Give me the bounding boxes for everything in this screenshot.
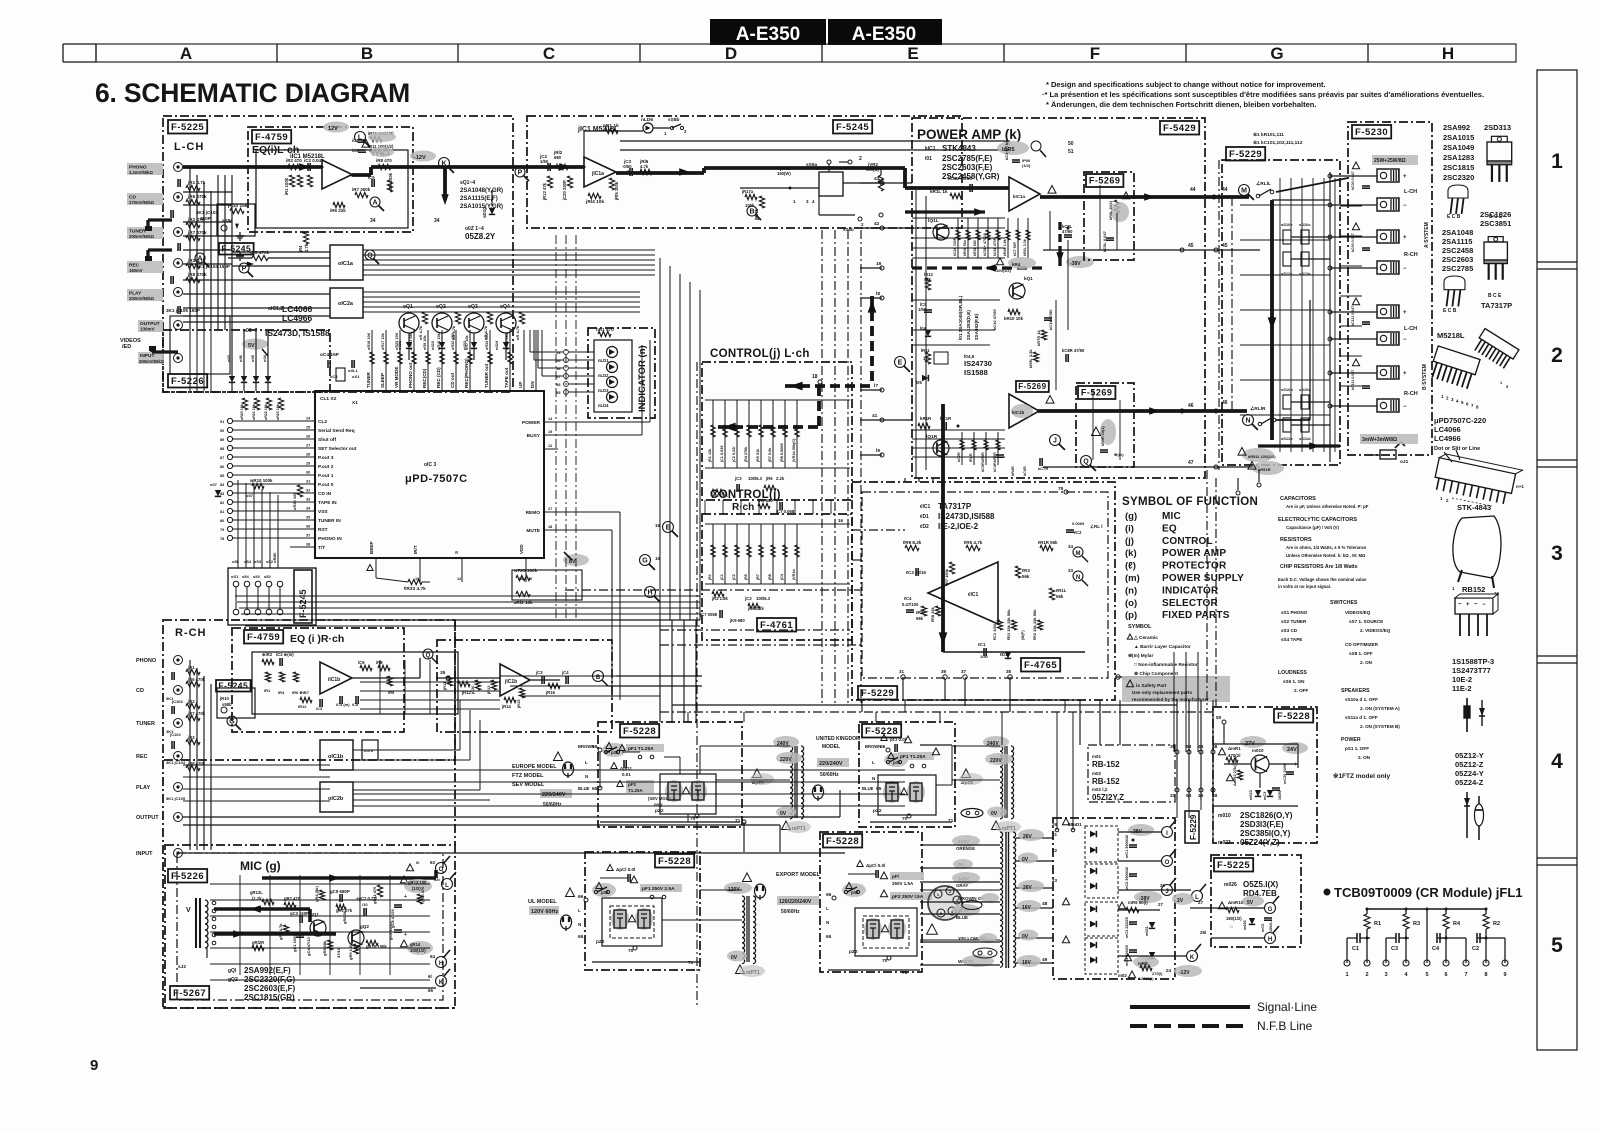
svg-text:pSl: pSl	[851, 890, 858, 895]
export fuse1	[880, 872, 924, 886]
svg-text:D: D	[725, 44, 737, 63]
svg-text:TUNER: TUNER	[366, 371, 371, 388]
speaker terminal 1	[1377, 169, 1410, 182]
rect diode box3	[1062, 898, 1118, 936]
svg-text:64: 64	[430, 954, 436, 959]
legend signal line	[1130, 1000, 1317, 1014]
box INDICATOR	[588, 328, 655, 418]
svg-text:kC111 0.047: kC111 0.047	[1351, 306, 1355, 326]
svg-text:BROWN: BROWN	[865, 744, 881, 749]
label F-5228 right	[1274, 709, 1313, 723]
svg-text:ℓC2: ℓC2	[1074, 530, 1082, 535]
svg-text:kC00 0.047: kC00 0.047	[1351, 171, 1355, 190]
svg-text:66: 66	[592, 744, 598, 750]
svg-text:kIC1b: kIC1b	[1012, 410, 1025, 415]
svg-text:50k(B): 50k(B)	[866, 167, 879, 172]
svg-text:TUNER out: TUNER out	[484, 363, 489, 388]
connector F-5245 circles	[231, 574, 283, 615]
svg-text:(n): (n)	[1125, 585, 1137, 596]
svg-text:F-4759: F-4759	[255, 132, 288, 143]
svg-text:9: 9	[1503, 972, 1506, 978]
svg-text:kC10 47/50: kC10 47/50	[992, 309, 997, 330]
svg-text:37: 37	[306, 534, 310, 538]
svg-text:mC6: mC6	[1261, 924, 1265, 932]
svg-text:44: 44	[1190, 187, 1196, 193]
svg-text:⊕(m): ⊕(m)	[1114, 452, 1124, 457]
svg-text:o04: o04	[262, 354, 267, 362]
pkg text TA7317P	[1481, 301, 1512, 310]
svg-text:INPUT: INPUT	[136, 851, 153, 857]
svg-text:ilC1b: ilC1b	[328, 677, 340, 683]
relay M	[1239, 181, 1274, 200]
svg-text:0V: 0V	[1022, 934, 1029, 940]
text RB-152	[1092, 754, 1124, 802]
svg-text:jR7 470k: jR7 470k	[187, 230, 207, 235]
svg-text:jR17a: jR17a	[741, 189, 754, 194]
svg-text:33: 33	[1068, 568, 1074, 573]
svg-text:A: A	[197, 256, 202, 263]
svg-text:VIDEOS/EQ: VIDEOS/EQ	[1345, 610, 1371, 615]
grey label 25W	[1372, 155, 1418, 165]
svg-text:2. ON: 2. ON	[1360, 660, 1373, 665]
input label TUNER	[127, 227, 163, 239]
svg-text:C: C	[543, 44, 555, 63]
res kR10	[992, 309, 1053, 330]
TCB CR module schematic	[1344, 908, 1508, 979]
svg-text:kR511 220(1/2): kR511 220(1/2)	[1248, 454, 1276, 459]
text LC4066	[268, 304, 313, 323]
vr pin labels	[793, 166, 884, 204]
svg-text:ΔpCl 0.0l: ΔpCl 0.0l	[616, 867, 635, 872]
svg-text:MIC (g): MIC (g)	[240, 859, 281, 873]
svg-text:MUTE: MUTE	[526, 528, 540, 534]
svg-text:gR14: gR14	[410, 942, 421, 947]
svg-text:L-CH: L-CH	[174, 141, 204, 153]
svg-text:sS10e: sS10e	[1281, 222, 1293, 227]
svg-text:R-CH: R-CH	[1404, 252, 1418, 258]
legend nfb line	[1130, 1019, 1313, 1033]
svg-text:H: H	[1268, 937, 1272, 943]
jack R PLAY	[136, 783, 183, 792]
svg-text:2. VIDEOS/EQ: 2. VIDEOS/EQ	[1360, 628, 1391, 633]
svg-text:(k): (k)	[1125, 548, 1137, 559]
spk bottom wires	[1236, 470, 1261, 495]
svg-text:+: +	[1403, 310, 1407, 316]
svg-text:680: 680	[554, 155, 562, 160]
svg-text:gC4 47/10: gC4 47/10	[306, 937, 311, 956]
rch eq wires	[360, 660, 500, 714]
mic transformer	[186, 898, 216, 958]
box rectifier	[1053, 818, 1175, 979]
svg-text:C1: C1	[1352, 946, 1359, 952]
signal to phones	[1258, 442, 1405, 450]
svg-text:IS1588: IS1588	[964, 368, 988, 377]
svg-text:−: −	[1403, 404, 1407, 410]
svg-text:o R51 680: o R51 680	[409, 332, 413, 350]
grey pill 240V e	[773, 736, 799, 748]
pkg text 2SC1826	[1480, 210, 1511, 228]
svg-text:26V: 26V	[1023, 885, 1033, 891]
svg-text:36: 36	[306, 525, 310, 529]
svg-text:1: 1	[1345, 972, 1348, 978]
svg-text:ΔmR1: ΔmR1	[1228, 746, 1241, 751]
connector labels	[232, 553, 277, 564]
tuner input stub	[145, 220, 172, 231]
svg-text:o06: o06	[238, 354, 243, 362]
svg-text:F-5269: F-5269	[1089, 176, 1121, 186]
svg-text:Are in ohms, 1/4 Watts, ± 5 %: Are in ohms, 1/4 Watts, ± 5 % Tolerance	[1286, 545, 1367, 550]
jack CD L	[174, 193, 183, 202]
mid crossing bus2	[320, 619, 700, 621]
svg-text:kR10 10k: kR10 10k	[1004, 316, 1024, 321]
transistor gQ1	[310, 912, 326, 936]
svg-text:sS10a d 1. OFF: sS10a d 1. OFF	[1345, 697, 1378, 702]
pin numbers mid	[655, 518, 844, 561]
label F-5228 ul	[655, 854, 694, 868]
warn pZ8 e	[750, 769, 774, 786]
svg-text:POWER SUPPLY: POWER SUPPLY	[1162, 573, 1244, 584]
svg-text:(g): (g)	[1125, 511, 1137, 522]
videos input stub	[149, 346, 178, 352]
svg-text:jC1 0.039: jC1 0.039	[720, 446, 724, 463]
svg-text:jVR1b: jVR1b	[792, 569, 796, 581]
svg-text:oXL1: oXL1	[348, 368, 359, 373]
rectifier extra verticals	[1057, 700, 1213, 843]
svg-text:(p): (p)	[1125, 610, 1137, 621]
svg-text:M: M	[1076, 551, 1081, 557]
net circle Q pa	[1081, 456, 1096, 471]
svg-text:24: 24	[1166, 968, 1172, 973]
left border lower	[163, 760, 455, 1008]
label INDICATOR	[637, 345, 648, 412]
mic warn1	[406, 860, 419, 871]
power amp R parts	[957, 432, 1000, 465]
svg-text:R3: R3	[1413, 921, 1420, 927]
svg-text:R·ch: R·ch	[732, 502, 754, 513]
svg-text:l9: l9	[876, 448, 880, 454]
svg-text:E: E	[907, 44, 918, 63]
cap kC8L	[1062, 224, 1073, 237]
svg-text:L: L	[585, 760, 588, 765]
svg-text:CONTROL(j): CONTROL(j)	[710, 489, 781, 501]
R selector caps	[166, 672, 186, 801]
svg-text:sS3 CD: sS3 CD	[1281, 628, 1298, 633]
indicator pins	[556, 350, 594, 395]
svg-text:∠RLlL: ∠RLlL	[1256, 181, 1271, 187]
text EXPORT MODEL	[743, 872, 821, 900]
svg-text:TUNER IN: TUNER IN	[318, 518, 341, 524]
svg-text:BROWN 0V: BROWN 0V	[958, 896, 985, 902]
svg-text:F: F	[1090, 44, 1100, 63]
res kC1L	[930, 176, 972, 199]
svg-text:49: 49	[1042, 957, 1048, 963]
svg-text:iR12: iR12	[298, 704, 307, 709]
svg-text:※1 kC101,102,111,112: ※1 kC101,102,111,112	[1253, 139, 1303, 146]
svg-text:gQl: gQl	[228, 968, 237, 974]
export fuse2	[880, 890, 932, 900]
svg-text:SELECTOR: SELECTOR	[1162, 598, 1218, 609]
svg-text:05Z12-Y: 05Z12-Y	[1455, 751, 1484, 760]
svg-text:0.0069: 0.0069	[1072, 521, 1085, 526]
speaker terminal 3	[1377, 230, 1410, 243]
svg-text:2SA992: 2SA992	[1443, 123, 1470, 132]
box buffer F-5245	[527, 116, 962, 228]
net circle J pa	[1050, 435, 1065, 450]
svg-text:P.out 2: P.out 2	[318, 464, 334, 470]
ps right verticals	[1080, 700, 1120, 745]
svg-text:200mV/50kΩ: 200mV/50kΩ	[129, 296, 155, 301]
svg-text:2SA992(E,F): 2SA992(E,F)	[244, 966, 291, 975]
svg-text:3K1 jC103: 3K1 jC103	[196, 210, 218, 215]
svg-text:RB152: RB152	[1462, 585, 1485, 594]
text TA7317P	[919, 502, 995, 531]
res kR1R	[918, 416, 960, 430]
relay wires	[1232, 178, 1348, 420]
jack R PHONO	[136, 656, 183, 665]
label F-5226	[168, 374, 207, 388]
selector resistors	[171, 179, 207, 314]
mic out L	[434, 872, 456, 890]
svg-text:VSS: VSS	[318, 509, 328, 515]
svg-text:o024: o024	[494, 340, 499, 350]
svg-text:sS2 TUNER: sS2 TUNER	[1281, 619, 1307, 624]
svg-text:pF1 T1.25A: pF1 T1.25A	[900, 754, 926, 760]
svg-text:F-5429: F-5429	[1163, 123, 1196, 134]
svg-text:s58b: s58b	[222, 702, 232, 707]
svg-text:o03: o03	[226, 354, 231, 362]
res wR10 100k	[210, 398, 284, 498]
signal out R	[1038, 407, 1247, 414]
svg-text:71: 71	[902, 970, 908, 976]
svg-text:o5l: o5l	[232, 559, 238, 564]
grey pill 24V	[1282, 742, 1308, 754]
svg-text:ℓC4: ℓC4	[904, 596, 912, 601]
diode row o021-o024	[397, 333, 509, 360]
svg-text:56k: 56k	[916, 616, 924, 621]
text STK4843 list	[925, 144, 1000, 181]
VR1 pot	[777, 160, 843, 196]
svg-text:CL1 X2: CL1 X2	[320, 396, 337, 402]
f5269 interior wires	[1093, 185, 1120, 460]
svg-text:jR10 15k: jR10 15k	[227, 203, 248, 209]
svg-text:Δ2700(l): Δ2700(l)	[1138, 976, 1154, 981]
signal to M5218L	[445, 165, 584, 169]
ic oIC1a	[330, 245, 363, 280]
svg-text:EQ: EQ	[1162, 523, 1177, 534]
transistor gQ2	[348, 924, 369, 946]
svg-text:220V: 220V	[780, 757, 792, 763]
svg-text:SPEAKERS: SPEAKERS	[1341, 688, 1370, 694]
svg-text:2SC385l(O,Y): 2SC385l(O,Y)	[1240, 829, 1291, 838]
rect out I	[1162, 820, 1177, 838]
selector out wires	[363, 250, 655, 275]
svg-text:oQ4: oQ4	[500, 304, 510, 310]
svg-text:sQ1~4: sQ1~4	[460, 180, 475, 186]
transistor row oQ1-oQ4	[399, 304, 525, 340]
svg-text:kC3 47/ ko: kC3 47/ ko	[1004, 140, 1009, 160]
svg-text:16V: 16V	[1022, 960, 1032, 966]
svg-text:l7: l7	[874, 383, 878, 389]
svg-text:REC (CD): REC (CD)	[436, 367, 441, 388]
pkg TO-220 2SC1826	[1484, 237, 1507, 299]
svg-text:uR21 10k: uR21 10k	[252, 404, 256, 420]
svg-text:200mV/50kΩ: 200mV/50kΩ	[129, 234, 155, 239]
rect zeners	[1145, 922, 1155, 968]
uk switch pS1	[884, 753, 908, 768]
svg-text:Signal·Line: Signal·Line	[1257, 1000, 1317, 1014]
svg-text:2V: 2V	[1177, 898, 1184, 904]
net circle E pa	[895, 357, 910, 372]
op-amp kIC1b	[1009, 394, 1054, 428]
svg-text:H: H	[1442, 44, 1454, 63]
svg-text:l05: l05	[916, 380, 922, 385]
svg-text:m021: m021	[1145, 926, 1149, 936]
svg-text:5: 5	[1425, 972, 1428, 978]
svg-text:46: 46	[1188, 403, 1194, 409]
svg-text:mD1: mD1	[1072, 822, 1082, 827]
svg-text:F-5267: F-5267	[173, 988, 206, 999]
label CONTROL L-ch	[710, 348, 810, 360]
ps cap mC20	[1283, 762, 1297, 784]
svg-text:IS2473D, IS1588: IS2473D, IS1588	[265, 328, 330, 338]
svg-text:N: N	[1245, 418, 1250, 425]
svg-text:mC3 220/25: mC3 220/25	[1125, 917, 1129, 938]
svg-text:F-5226: F-5226	[171, 871, 204, 882]
svg-text:29: 29	[306, 462, 310, 466]
svg-text:jC4: jC4	[780, 573, 784, 581]
svg-text:A-E350: A-E350	[736, 24, 800, 45]
cap C105 150P	[166, 308, 200, 313]
svg-text:oX1: oX1	[352, 374, 360, 379]
svg-text:SYMBOL: SYMBOL	[1128, 624, 1152, 630]
svg-text:2SC2603: 2SC2603	[1442, 255, 1473, 264]
res oR30 10k	[292, 485, 303, 510]
label F-5225	[168, 120, 207, 134]
svg-text:ℓIC1: ℓIC1	[919, 504, 930, 510]
R buf parts	[442, 676, 525, 709]
pin 34 labels	[370, 218, 440, 224]
europe 70 71	[600, 814, 741, 824]
svg-text:2. ON: 2. ON	[1358, 755, 1371, 760]
page number	[90, 1057, 98, 1074]
grey 220/240V europe	[540, 789, 572, 808]
svg-text:BUSY: BUSY	[527, 433, 541, 439]
svg-text:05Z8.2Y: 05Z8.2Y	[465, 232, 496, 241]
svg-text:oR18 10K: oR18 10K	[367, 332, 371, 350]
VR wires	[740, 167, 881, 232]
pin 75	[1058, 486, 1068, 494]
svg-text:05Z12-Z: 05Z12-Z	[1455, 760, 1484, 769]
main title	[95, 78, 410, 108]
svg-text:05Z24(Y,Z): 05Z24(Y,Z)	[1240, 838, 1280, 847]
power amp L parts	[953, 218, 1030, 258]
svg-text:33k: 33k	[924, 277, 932, 282]
svg-text:sS10b: sS10b	[1281, 387, 1293, 392]
svg-text:nLD3: nLD3	[598, 388, 609, 393]
svg-text:nLD2: nLD2	[598, 373, 609, 378]
europe fuse pF2	[617, 780, 654, 793]
svg-text:12: 12	[457, 577, 461, 581]
notes speakers	[1341, 688, 1400, 729]
box F-5225 zener	[1211, 855, 1301, 947]
uk pins	[862, 744, 890, 792]
ul switch	[592, 883, 616, 898]
svg-text:TAPE IN: TAPE IN	[318, 500, 337, 506]
transistor kQ1R	[926, 434, 949, 456]
protector bottom wires	[903, 679, 1010, 712]
svg-text:100k: 100k	[745, 203, 755, 208]
svg-text:2SA992(F,E): 2SA992(F,E)	[974, 313, 979, 340]
svg-text:80: 80	[220, 519, 224, 523]
mains top pins	[1052, 822, 1075, 883]
ic right area wires	[556, 235, 576, 620]
svg-text:4: 4	[1551, 750, 1563, 773]
svg-text:05Z24-Y: 05Z24-Y	[1455, 769, 1484, 778]
svg-text:51: 51	[1068, 149, 1074, 155]
svg-text:82: 82	[220, 501, 224, 505]
parts F-5269 no2	[1092, 419, 1125, 457]
svg-text:ΔmR2 27k(1/2): ΔmR2 27k(1/2)	[1232, 758, 1237, 786]
arrow amp in	[905, 208, 985, 215]
svg-text:wRM0: wRM0	[273, 553, 277, 564]
svg-text:V: V	[186, 907, 191, 914]
spk switch sS11a	[1281, 252, 1311, 276]
text 05Z8.2Y	[465, 226, 496, 241]
svg-text:220V: 220V	[990, 758, 1002, 764]
svg-text:kC11 47/50: kC11 47/50	[1048, 309, 1053, 330]
svg-text:jR5 51k: jR5 51k	[756, 448, 760, 463]
svg-text:jR1: jR1	[708, 574, 712, 581]
transistor kQ1L	[928, 218, 949, 240]
op-amp protector	[928, 562, 998, 624]
mic thick low	[214, 930, 336, 937]
notes switches	[1281, 600, 1391, 665]
label F-4765	[1021, 658, 1060, 672]
svg-text:−: −	[1403, 337, 1407, 343]
ic right bus wires	[565, 340, 650, 700]
svg-text:m026: m026	[1224, 882, 1237, 888]
svg-text:66: 66	[578, 894, 584, 900]
svg-text:42: 42	[874, 221, 880, 227]
svg-text:oR25 10K: oR25 10K	[395, 332, 399, 350]
mic sJ2	[178, 964, 186, 970]
svg-text:150(W): 150(W)	[777, 171, 791, 176]
svg-text:POWER AMP (k): POWER AMP (k)	[917, 127, 1021, 142]
svg-text:0V: 0V	[780, 811, 787, 817]
svg-text:45: 45	[1188, 243, 1194, 249]
svg-text:iR1 100k: iR1 100k	[284, 177, 289, 195]
svg-text:L-CH: L-CH	[1404, 189, 1417, 195]
svg-text:CD IN: CD IN	[318, 491, 332, 497]
svg-text:16: 16	[655, 523, 661, 528]
svg-text:gR4 (8k): gR4 (8k)	[314, 886, 319, 902]
svg-text:pZ2: pZ2	[873, 808, 882, 814]
svg-text:m026: m026	[1243, 920, 1247, 930]
svg-text:ℓD2: ℓD2	[919, 524, 929, 530]
svg-text:(m): (m)	[1125, 573, 1140, 584]
svg-text:oIC1,2: oIC1,2	[268, 306, 283, 312]
svg-text:mC3: mC3	[1263, 792, 1267, 800]
svg-text:35: 35	[306, 516, 310, 520]
svg-text:jR13 47k: jR13 47k	[542, 182, 547, 201]
svg-text:kR51R: kR51R	[1258, 467, 1271, 472]
relay N	[1243, 406, 1276, 430]
svg-text:iC2 ⊕(m): iC2 ⊕(m)	[276, 652, 294, 657]
svg-text:jC102: jC102	[169, 732, 181, 737]
label F-5245 top	[833, 120, 872, 134]
svg-text:270mV/50kΩ: 270mV/50kΩ	[129, 200, 155, 205]
grey pill 5V sel	[242, 339, 268, 357]
